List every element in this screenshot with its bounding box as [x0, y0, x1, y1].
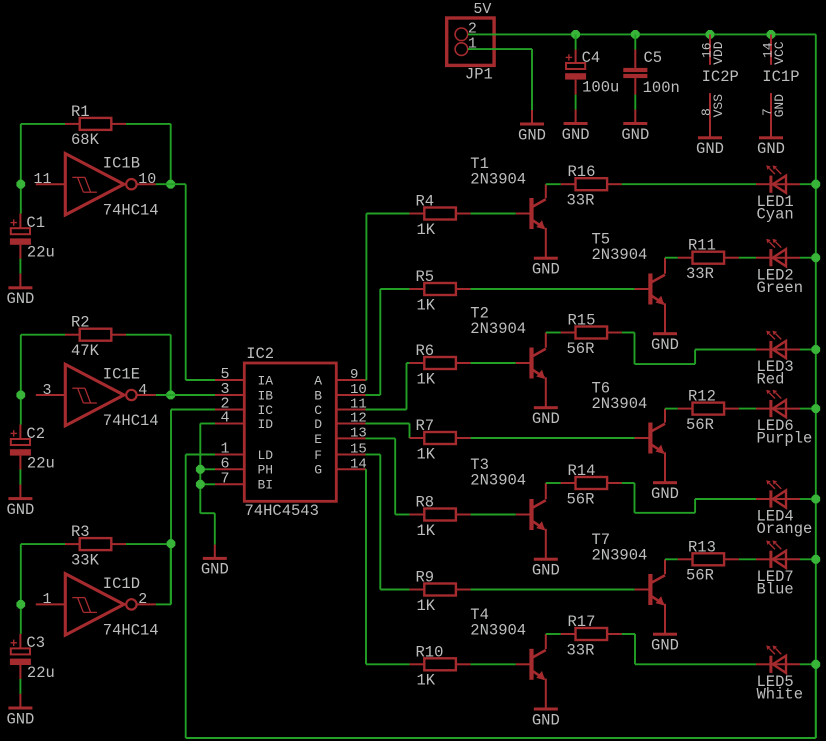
svg-text:GND: GND [651, 336, 679, 354]
ground [532, 257, 560, 279]
svg-text:Purple: Purple [757, 430, 813, 448]
svg-text:IC: IC [258, 403, 274, 418]
wire base T3 [471, 514, 516, 516]
svg-text:R7: R7 [416, 417, 435, 435]
IC2 pin 2 IC [215, 396, 273, 418]
svg-text:C1: C1 [26, 214, 45, 232]
svg-text:R9: R9 [416, 569, 435, 587]
wire LED1 anode [800, 183, 816, 185]
IC2 pin 1 LD [215, 441, 273, 463]
svg-text:IC1D: IC1D [103, 575, 140, 593]
svg-text:33R: 33R [567, 641, 595, 659]
junction BI [196, 480, 205, 489]
ground [518, 110, 546, 144]
inverter IC1E 74HC14 [36, 364, 159, 430]
junction node LED5 [811, 660, 820, 669]
svg-text:2N3904: 2N3904 [592, 547, 648, 565]
resistor R9 [410, 569, 471, 615]
resistor R12 [678, 388, 739, 434]
LED LED1 Cyan [756, 165, 800, 223]
capacitor C4 [565, 49, 619, 110]
transistor T4 2N3904 [470, 606, 546, 709]
junction node out [166, 391, 175, 400]
LED LED6 Purple [756, 390, 812, 448]
svg-text:12: 12 [350, 411, 367, 427]
wire collector T4 [546, 633, 561, 635]
svg-text:IC2P: IC2P [702, 68, 739, 86]
svg-text:2N3904: 2N3904 [592, 395, 648, 413]
wire LED5 anode [800, 663, 816, 665]
power symbol IC1P VCC pin 14 [761, 34, 800, 86]
svg-text:56R: 56R [567, 490, 595, 508]
svg-text:1K: 1K [417, 445, 436, 463]
svg-text:VDD: VDD [711, 41, 726, 65]
svg-text:10: 10 [138, 171, 156, 188]
wire base T6 [471, 437, 635, 439]
svg-text:ID: ID [258, 417, 274, 432]
junction node LED1 [811, 180, 820, 189]
junction node LED7 [811, 555, 820, 564]
transistor T2 2N3904 [470, 305, 546, 408]
transistor T3 2N3904 [470, 456, 546, 559]
IC2 pin 5 IA [215, 366, 273, 388]
IC2 pin 13 E [314, 425, 367, 446]
svg-text:D: D [314, 417, 322, 432]
wire LED6 anode [800, 408, 816, 410]
svg-text:C5: C5 [644, 49, 663, 67]
svg-text:R16: R16 [568, 163, 596, 181]
wire F to base resistor [366, 455, 410, 590]
svg-text:56R: 56R [567, 340, 595, 358]
connector JP1 [447, 18, 494, 83]
svg-text:1K: 1K [417, 370, 436, 388]
svg-text:1K: 1K [417, 221, 436, 239]
power symbol IC2P VDD pin 16 [700, 34, 739, 86]
wire C5 [634, 34, 636, 49]
ground [201, 545, 229, 579]
wire LED7 anode [800, 558, 816, 560]
svg-text:GND: GND [6, 290, 34, 308]
transistor T1 2N3904 [470, 155, 546, 258]
wire JP1 pin1 to GND [468, 49, 532, 111]
IC2 pin 4 ID [215, 410, 273, 432]
svg-text:GND: GND [532, 261, 560, 279]
power symbol IC1P GND pin 7 [760, 93, 787, 138]
resistor R4 [410, 193, 471, 239]
capacitor C3 [10, 634, 55, 694]
capacitor C1 [10, 214, 55, 274]
svg-text:2N3904: 2N3904 [592, 246, 648, 264]
svg-text:100n: 100n [643, 79, 680, 97]
junction 5V VCC [767, 30, 776, 39]
svg-text:GND: GND [532, 562, 560, 580]
svg-text:9: 9 [350, 367, 358, 383]
IC2 pin 10 B [314, 382, 367, 403]
resistor R10 [410, 643, 471, 689]
svg-text:BI: BI [258, 478, 274, 493]
svg-text:1: 1 [42, 591, 51, 608]
svg-text:R10: R10 [416, 643, 444, 661]
svg-text:74HC14: 74HC14 [103, 201, 159, 219]
ground [651, 481, 679, 503]
junction node LED6 [811, 404, 820, 413]
junction node LED2 [811, 253, 820, 262]
resistor R1 [65, 103, 126, 149]
wire C to base resistor [366, 363, 410, 410]
svg-text:C2: C2 [26, 425, 45, 443]
wire E to base resistor [366, 438, 410, 514]
wire R17 to LED5 [622, 634, 756, 664]
capacitor C2 [10, 425, 55, 485]
svg-text:14: 14 [350, 456, 367, 472]
junction node out [166, 180, 175, 189]
IC2 pin 12 D [314, 411, 367, 432]
resistor R6 [410, 342, 471, 388]
svg-text:IB: IB [258, 388, 274, 403]
wire LED4 anode [800, 498, 816, 500]
LED LED4 Orange [756, 480, 812, 538]
svg-text:R17: R17 [568, 613, 596, 631]
junction 5V VDD [706, 30, 715, 39]
ground [6, 485, 34, 519]
ground [532, 406, 560, 428]
IC2 pin 7 BI [215, 470, 273, 492]
svg-text:R6: R6 [416, 342, 435, 360]
power symbol IC2P VSS pin 8 [699, 93, 726, 138]
capacitor C5 [623, 49, 680, 109]
wire R15 to LED3 [622, 333, 756, 365]
svg-text:B: B [314, 388, 322, 403]
svg-text:1K: 1K [417, 522, 436, 540]
svg-text:1K: 1K [417, 296, 436, 314]
junction 5V C5 [631, 30, 640, 39]
svg-text:C3: C3 [26, 634, 45, 652]
svg-text:4: 4 [220, 410, 229, 427]
svg-text:7: 7 [220, 470, 229, 487]
svg-text:E: E [314, 432, 322, 447]
ground [651, 633, 679, 655]
svg-text:Orange: Orange [757, 520, 813, 538]
resistor R3 [65, 523, 126, 569]
svg-text:13: 13 [350, 425, 367, 441]
svg-text:GND: GND [772, 94, 787, 118]
svg-text:56R: 56R [686, 416, 714, 434]
ground [696, 136, 724, 158]
ground [621, 110, 649, 144]
svg-text:G: G [314, 463, 322, 478]
wire base T5 [471, 288, 635, 290]
ground [562, 110, 590, 144]
svg-text:GND: GND [532, 410, 560, 428]
wire base T2 [471, 362, 516, 364]
inverter IC1B 74HC14 [33, 154, 158, 220]
svg-text:2: 2 [138, 591, 147, 608]
svg-text:VCC: VCC [772, 41, 787, 65]
resistor R2 [65, 314, 126, 360]
wire A to base resistor [366, 214, 410, 381]
svg-text:R11: R11 [688, 237, 716, 255]
ground [532, 708, 560, 730]
svg-text:LD: LD [258, 448, 274, 463]
svg-text:R14: R14 [568, 462, 596, 480]
wire base T7 [471, 589, 635, 591]
wire collector T2 [546, 332, 561, 334]
svg-text:1K: 1K [417, 597, 436, 615]
svg-text:F: F [314, 448, 322, 463]
svg-text:11: 11 [33, 171, 51, 188]
wire base T4 [471, 663, 516, 665]
junction 5V C4 [571, 30, 580, 39]
svg-text:56R: 56R [686, 567, 714, 585]
svg-text:PH: PH [258, 463, 274, 478]
wire net R3 top [21, 544, 171, 634]
svg-text:22u: 22u [27, 454, 55, 472]
svg-text:White: White [757, 685, 804, 703]
LED LED7 Blue [756, 540, 800, 598]
wire LED3 anode [800, 349, 816, 351]
wire LED2 anode [800, 257, 816, 259]
IC2 pin 11 C [314, 397, 367, 418]
LED LED5 White [756, 645, 803, 703]
junction node LED3 [811, 345, 820, 354]
resistor R15 [561, 312, 622, 358]
svg-text:Red: Red [757, 371, 785, 389]
junction node R3 feedback [167, 539, 176, 548]
resistor R14 [561, 462, 622, 508]
svg-text:IC1E: IC1E [103, 366, 140, 384]
svg-text:Cyan: Cyan [757, 205, 794, 223]
junction node in [16, 180, 25, 189]
svg-text:100u: 100u [582, 78, 619, 96]
svg-text:4: 4 [138, 382, 147, 399]
wire net R2 top [21, 335, 171, 425]
svg-text:33R: 33R [567, 192, 595, 210]
resistor R5 [410, 268, 471, 314]
svg-text:R15: R15 [568, 312, 596, 330]
ground [651, 332, 679, 354]
svg-text:GND: GND [6, 501, 34, 519]
svg-text:3: 3 [42, 382, 51, 399]
svg-text:IA: IA [258, 373, 274, 388]
svg-text:2N3904: 2N3904 [470, 472, 526, 490]
IC2 pin 15 F [314, 442, 367, 463]
wire C4 [575, 34, 577, 49]
wire IC1D out to IC [156, 410, 215, 605]
svg-text:C: C [314, 403, 322, 418]
LED LED2 Green [756, 239, 803, 297]
wire PH stub [200, 468, 215, 470]
svg-text:R1: R1 [71, 103, 90, 121]
svg-text:R8: R8 [416, 494, 435, 512]
svg-text:R2: R2 [71, 314, 90, 332]
transistor T6 2N3904 [592, 380, 666, 483]
wire IC1B out to IA [156, 184, 215, 380]
svg-text:IC1B: IC1B [103, 155, 140, 173]
svg-text:68K: 68K [71, 131, 100, 149]
wire collector T7 [665, 558, 678, 560]
svg-text:33K: 33K [71, 551, 100, 569]
svg-text:R5: R5 [416, 268, 435, 286]
svg-text:GND: GND [651, 637, 679, 655]
svg-text:GND: GND [757, 140, 785, 158]
resistor R16 [561, 163, 622, 209]
junction node in [16, 600, 25, 609]
svg-text:R12: R12 [688, 388, 716, 406]
inverter IC1D 74HC14 [36, 574, 159, 640]
wire collector T1 [546, 183, 561, 185]
junction PH [196, 465, 205, 474]
svg-text:VSS: VSS [711, 94, 726, 118]
ground [6, 694, 34, 728]
svg-text:Green: Green [757, 279, 804, 297]
IC2 pin 6 PH [215, 455, 273, 477]
wire net R1 top [21, 124, 171, 214]
svg-text:47K: 47K [71, 342, 100, 360]
wire collector T3 [546, 482, 561, 484]
wire net 5V rail [468, 34, 816, 738]
ground [6, 274, 34, 308]
svg-text:GND: GND [696, 140, 724, 158]
wire R13 to LED7 [739, 558, 756, 560]
wire R12 to LED6 [739, 408, 756, 410]
wire ID to GND [200, 424, 215, 545]
svg-text:22u: 22u [27, 664, 55, 682]
wire R16 to LED1 [622, 183, 756, 185]
svg-text:74HC14: 74HC14 [103, 622, 159, 640]
svg-text:GND: GND [532, 711, 560, 729]
svg-text:IC2: IC2 [246, 345, 274, 363]
resistor R8 [410, 494, 471, 540]
svg-text:A: A [314, 373, 322, 388]
wire B to base resistor [366, 289, 410, 395]
svg-text:GND: GND [651, 485, 679, 503]
svg-text:5V: 5V [473, 1, 491, 18]
wire R11 to LED2 [739, 257, 756, 259]
svg-text:74HC4543: 74HC4543 [245, 502, 319, 520]
svg-text:R4: R4 [416, 193, 435, 211]
svg-text:GND: GND [6, 710, 34, 728]
svg-text:15: 15 [350, 442, 367, 458]
svg-text:22u: 22u [27, 244, 55, 262]
transistor T5 2N3904 [592, 231, 666, 334]
resistor R7 [410, 417, 471, 463]
svg-text:1K: 1K [417, 672, 436, 690]
junction node LED4 [811, 495, 820, 504]
svg-text:GND: GND [562, 126, 590, 144]
svg-text:Blue: Blue [757, 580, 794, 598]
svg-text:GND: GND [518, 126, 546, 144]
resistor R17 [561, 613, 622, 659]
svg-text:IC1P: IC1P [762, 68, 799, 86]
transistor T7 2N3904 [592, 531, 666, 634]
IC2 pin 3 IB [215, 381, 273, 403]
svg-text:R3: R3 [71, 523, 90, 541]
IC IC2 74HC4543 body [244, 345, 336, 520]
svg-text:2N3904: 2N3904 [470, 320, 526, 338]
wire D to base resistor [366, 424, 410, 439]
svg-text:JP1: JP1 [465, 65, 493, 83]
wire R14 to LED4 [622, 483, 756, 513]
LED LED3 Red [756, 331, 800, 389]
wire base T1 [471, 213, 516, 215]
svg-text:33R: 33R [686, 265, 714, 283]
svg-text:2N3904: 2N3904 [470, 621, 526, 639]
ground [532, 558, 560, 580]
junction node in [16, 391, 25, 400]
wire collector T6 [665, 408, 678, 410]
svg-text:R13: R13 [688, 538, 716, 556]
svg-text:2N3904: 2N3904 [470, 171, 526, 189]
wire LD to 5V rail [186, 455, 816, 739]
wire IC1E out to IB [156, 394, 215, 396]
ground [757, 136, 785, 158]
wire collector T5 [665, 257, 678, 259]
IC2 pin 14 G [314, 456, 367, 477]
svg-text:GND: GND [201, 561, 229, 579]
svg-text:GND: GND [621, 126, 649, 144]
wire BI stub [200, 483, 215, 485]
supply 5V label [473, 1, 491, 18]
wire G to base resistor [366, 469, 410, 664]
resistor R13 [678, 538, 739, 584]
svg-text:74HC14: 74HC14 [103, 412, 159, 430]
resistor R11 [678, 237, 739, 283]
IC2 pin 9 A [314, 367, 365, 388]
svg-text:C4: C4 [582, 49, 601, 67]
